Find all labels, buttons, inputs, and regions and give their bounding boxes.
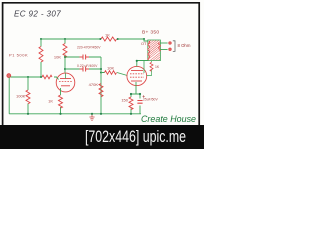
node plate/branch1 — [64, 56, 66, 58]
svg-text:25uF/50V: 25uF/50V — [143, 98, 158, 102]
svg-text:10K: 10K — [107, 66, 114, 71]
tube V2 output pentode envelope — [127, 66, 147, 85]
wire V2 screen lead — [143, 61, 145, 74]
node plate-rail top junction — [64, 38, 66, 40]
wire coupling branch 1 — [65, 56, 101, 58]
tube V1 EC92 envelope — [56, 73, 75, 92]
transformer primary winding — [148, 41, 150, 60]
wire plate rail — [64, 39, 66, 73]
svg-text:OT: OT — [141, 41, 147, 46]
potentiometer P1 500K — [40, 39, 42, 47]
ground rail — [9, 113, 141, 115]
svg-text:8 Ohm: 8 Ohm — [178, 43, 191, 48]
wire cathode V2 — [131, 82, 140, 114]
svg-text:P1 500K: P1 500K — [9, 53, 28, 58]
wire coupling right rail — [100, 57, 102, 114]
transformer secondary winding — [159, 43, 161, 52]
resistor R 1K on B+ rail — [101, 37, 116, 41]
svg-text:150: 150 — [121, 98, 128, 103]
wire V1 plate lead — [65, 73, 67, 78]
wire B+ to transformer — [144, 39, 148, 41]
resistor grid leak V2 470K — [99, 84, 103, 97]
svg-text:220-470P/450V: 220-470P/450V — [77, 46, 101, 50]
speaker terminal - — [169, 48, 172, 51]
wire B+ top rail — [41, 38, 144, 40]
node top-left junction — [40, 38, 42, 40]
tube V2 screen grid — [130, 73, 144, 75]
tube V2 cathode — [131, 80, 142, 82]
input terminal — [7, 74, 11, 78]
svg-text:470K: 470K — [89, 82, 99, 87]
svg-text:10K: 10K — [54, 55, 61, 60]
tube V1 cathode — [61, 85, 70, 87]
svg-text:1K: 1K — [155, 65, 160, 69]
resistor grid stopper V2 10K — [105, 71, 117, 75]
sheet background — [0, 0, 204, 149]
svg-text:1K: 1K — [48, 99, 53, 104]
ground symbol — [89, 114, 94, 121]
resistor screen stopper — [147, 61, 152, 76]
svg-text:1K: 1K — [105, 33, 110, 38]
svg-text:Create House: Create House — [141, 114, 196, 125]
resistor plate load 10K — [63, 44, 67, 58]
svg-text:[702x446] upic.me: [702x446] upic.me — [85, 128, 186, 146]
svg-text:B+ 350: B+ 350 — [142, 30, 159, 36]
wire secondary bottom — [160, 49, 167, 51]
node grid leak top — [27, 76, 29, 78]
black watermark bar — [0, 125, 204, 149]
wire secondary top — [160, 42, 167, 44]
wire coupling branch 2 — [65, 68, 101, 70]
capacitor C2 0.22uF — [80, 67, 90, 72]
resistor cathode V1 1K — [60, 88, 62, 114]
capacitor cathode bypass 25uF — [137, 101, 142, 104]
node pot bottom — [40, 76, 42, 78]
transformer OT core — [148, 40, 161, 61]
bracket — [173, 41, 175, 52]
resistor grid leak 100K — [27, 77, 29, 114]
wire grid line V2 — [101, 73, 127, 76]
wire grid line V1 — [11, 77, 59, 80]
tube V2 plate — [131, 70, 143, 72]
tube V2 control grid — [130, 76, 144, 78]
tube V1 plate — [60, 78, 71, 80]
svg-text:0.22 uF/400V: 0.22 uF/400V — [77, 64, 98, 68]
wire input drop — [8, 78, 10, 114]
node plate/branch2 — [64, 68, 66, 70]
svg-text:100K: 100K — [16, 94, 26, 99]
tube V1 grid — [59, 81, 72, 83]
speaker terminal + — [169, 42, 172, 45]
svg-text:EC 92 - 307: EC 92 - 307 — [14, 10, 61, 19]
photo frame border — [3, 3, 200, 125]
resistor cathode V2 150 — [129, 97, 133, 110]
capacitor C1 220-470P — [80, 55, 90, 60]
wire V2 plate lead — [137, 61, 148, 67]
resistor grid stopper V1 — [42, 75, 52, 79]
